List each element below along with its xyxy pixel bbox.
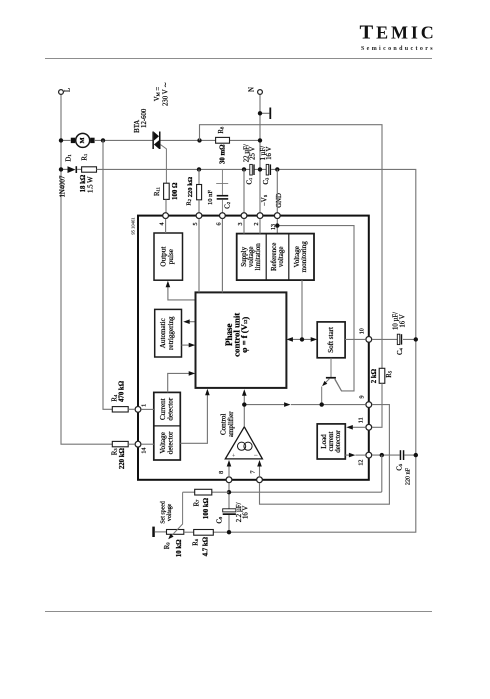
node pin 11 xyxy=(359,417,372,430)
svg-text:30 mΩ: 30 mΩ xyxy=(219,144,226,164)
wire pin 12 wrap to pin 8 node xyxy=(229,455,382,492)
svg-text:C4: C4 xyxy=(397,347,404,355)
svg-text:C5: C5 xyxy=(396,463,403,471)
node pin 6 xyxy=(217,213,226,226)
wire pin 4 to output pulse xyxy=(165,219,167,233)
svg-text:10 nF: 10 nF xyxy=(207,190,214,205)
wire pin 2 into block xyxy=(259,219,261,234)
node pin 14 xyxy=(135,441,148,453)
header rule xyxy=(45,58,432,60)
svg-text:220 kΩ: 220 kΩ xyxy=(119,447,126,469)
wire main line L-motor-triac-R8-N y=140.4 xyxy=(59,138,262,142)
label GND xyxy=(276,193,283,208)
svg-text:C9: C9 xyxy=(216,516,223,524)
svg-text:N: N xyxy=(247,87,255,92)
svg-text:detector: detector xyxy=(166,431,174,454)
svg-text:voltage: voltage xyxy=(277,246,285,267)
resistor R5 2k xyxy=(371,368,393,427)
svg-text:25 V: 25 V xyxy=(250,146,257,159)
svg-text:6: 6 xyxy=(217,222,223,225)
wire PCU to retriggering xyxy=(183,319,195,324)
wire amplifier output to PCU and pin 9 xyxy=(242,389,366,427)
triac BTA 12-600 xyxy=(152,132,166,184)
node N terminal xyxy=(247,87,262,94)
svg-text:12-600: 12-600 xyxy=(141,108,148,128)
svg-text:4: 4 xyxy=(160,222,166,225)
resistor R2 220k xyxy=(186,169,202,212)
wire motor sense to R4 xyxy=(103,140,112,409)
wire pin 11 to load current detector xyxy=(346,425,365,430)
svg-text:−VS: −VS xyxy=(261,194,268,206)
svg-text:amplifier: amplifier xyxy=(227,411,235,437)
svg-text:8: 8 xyxy=(219,471,225,474)
resistor R4 470k xyxy=(111,380,134,412)
svg-text:16 V: 16 V xyxy=(242,506,249,519)
svg-text:10 kΩ: 10 kΩ xyxy=(176,539,183,557)
block load current detector xyxy=(317,424,345,459)
node pin 12 xyxy=(359,452,372,465)
svg-text:Soft start: Soft start xyxy=(327,327,335,353)
svg-text:R9: R9 xyxy=(164,542,171,550)
wire PCU to soft start xyxy=(286,337,317,342)
capacitor C9 2.2uF xyxy=(216,502,249,532)
node L terminal xyxy=(59,88,72,95)
label -Vs xyxy=(261,194,268,206)
svg-text:13: 13 xyxy=(271,224,277,230)
svg-text:Semiconductors: Semiconductors xyxy=(361,46,435,52)
svg-text:230 V ∼: 230 V ∼ xyxy=(162,82,169,106)
op-amp control amplifier xyxy=(220,411,263,460)
svg-text:−: − xyxy=(254,450,258,459)
svg-text:monitoring: monitoring xyxy=(300,241,308,273)
node pin 5 xyxy=(193,213,202,226)
svg-text:100 Ω: 100 Ω xyxy=(172,182,179,200)
resistor R6 4.7k xyxy=(184,530,231,557)
svg-text:3: 3 xyxy=(238,222,244,225)
svg-text:R4: R4 xyxy=(111,394,118,402)
resistor R8 30mOhm xyxy=(216,126,230,164)
svg-text:R3: R3 xyxy=(111,448,118,456)
svg-text:R2 220 kΩ: R2 220 kΩ xyxy=(186,177,194,206)
resistor R1 18k xyxy=(80,154,96,193)
capacitor C4 10uF xyxy=(372,312,418,355)
capacitor C1 22uF xyxy=(243,144,256,184)
capacitor C5 220nF xyxy=(372,450,418,485)
label BTA 12-600 xyxy=(134,108,148,133)
svg-text:4.7 kΩ: 4.7 kΩ xyxy=(203,536,210,556)
wire pin 8 down xyxy=(227,483,231,509)
svg-text:Set speed: Set speed xyxy=(161,501,167,523)
wire retriggering to PCU xyxy=(182,343,196,348)
block supply voltage limitation / reference voltage / voltage monitoring xyxy=(237,234,314,281)
node pin 8 xyxy=(219,471,232,483)
svg-text:retriggering: retriggering xyxy=(167,316,175,350)
wire pin 6 into PCU xyxy=(221,219,223,293)
footer rule xyxy=(45,611,432,613)
TEMIC logo xyxy=(360,22,437,52)
wire voltage detector to PCU bottom xyxy=(180,389,209,444)
svg-text:2 kΩ: 2 kΩ xyxy=(371,368,378,383)
svg-text:95 10461: 95 10461 xyxy=(130,217,135,235)
capacitor C2 10nF xyxy=(207,169,232,212)
wire N rail down to pin 2 xyxy=(259,95,261,213)
svg-text:12: 12 xyxy=(359,460,365,466)
potentiometer R9 10k set speed xyxy=(152,492,184,557)
svg-text:10: 10 xyxy=(360,328,366,334)
block phase control unit xyxy=(196,292,287,388)
svg-text:R6: R6 xyxy=(193,538,200,546)
svg-text:+: + xyxy=(232,453,236,460)
svg-text:L: L xyxy=(64,88,72,92)
svg-text:1N4007: 1N4007 xyxy=(59,175,66,198)
svg-text:R5: R5 xyxy=(386,370,393,378)
node pin 9 xyxy=(360,395,372,407)
svg-text:470 kΩ: 470 kΩ xyxy=(119,380,126,402)
svg-text:7: 7 xyxy=(251,470,257,473)
svg-text:R8: R8 xyxy=(218,126,225,134)
block current detector / voltage detector xyxy=(154,392,181,460)
svg-text:16 V: 16 V xyxy=(266,146,273,159)
wire L rail down to R3 xyxy=(61,95,112,444)
wire output pulse from PCU xyxy=(166,281,196,300)
wire pin 7 to amplifier minus xyxy=(257,460,262,477)
svg-text:BTA: BTA xyxy=(134,120,141,133)
svg-text:14: 14 xyxy=(142,448,148,454)
wire current detector to PCU xyxy=(168,371,196,392)
wire -Vs rail y=169.4 xyxy=(97,167,416,532)
wire pin 1 to current detector xyxy=(141,408,154,410)
svg-text:C3: C3 xyxy=(263,177,270,185)
svg-text:11: 11 xyxy=(359,417,365,423)
block soft start xyxy=(317,322,345,358)
svg-text:voltage: voltage xyxy=(167,503,173,521)
wire R8 sense line to R5 xyxy=(200,125,383,369)
wire pin 14 to voltage detector xyxy=(141,443,154,445)
svg-text:1: 1 xyxy=(141,404,147,407)
svg-text:detector: detector xyxy=(166,397,174,420)
wire voltage monitoring down to soft start node xyxy=(301,280,303,339)
block automatic retriggering xyxy=(155,309,182,357)
node pin 4 xyxy=(160,213,169,226)
transistor Q1 xyxy=(322,358,342,405)
wire pin 3 into block xyxy=(243,219,245,234)
wire N tap T-bar xyxy=(258,108,271,120)
wire pin 5 into PCU xyxy=(198,219,200,293)
resistor R11 100R gate xyxy=(154,182,179,213)
wire load current detector to pin 12 xyxy=(345,453,365,458)
diode D1 xyxy=(59,154,82,197)
svg-text:16 V: 16 V xyxy=(399,314,406,327)
capacitor C3 1uF xyxy=(260,146,273,185)
label VM 230V xyxy=(154,82,170,106)
svg-text:9: 9 xyxy=(360,395,366,398)
wire soft start to pin 10 xyxy=(345,338,366,340)
svg-text:detector: detector xyxy=(334,430,342,453)
svg-text:100 kΩ: 100 kΩ xyxy=(203,497,210,519)
svg-text:C1: C1 xyxy=(247,178,254,185)
wire pin 8 to amplifier plus xyxy=(227,460,232,477)
node pin 13 xyxy=(271,213,280,230)
svg-text:R7: R7 xyxy=(193,499,200,507)
svg-text:220 nF: 220 nF xyxy=(405,467,411,485)
svg-text:TEMIC: TEMIC xyxy=(360,22,437,44)
node pin 7 xyxy=(251,470,263,482)
svg-text:5: 5 xyxy=(193,222,199,225)
svg-text:D1: D1 xyxy=(66,154,73,161)
svg-text:VM =: VM = xyxy=(154,87,162,102)
node pin 1 xyxy=(135,404,147,412)
wire pin 9 wrap to pin 7 xyxy=(260,405,390,505)
svg-text:18 kΩ: 18 kΩ xyxy=(80,174,87,192)
block output pulse xyxy=(154,233,183,280)
node pin 3 xyxy=(238,213,247,226)
svg-text:limitation: limitation xyxy=(254,243,262,271)
svg-text:1.5 W: 1.5 W xyxy=(87,176,94,193)
svg-text:pulse: pulse xyxy=(167,249,175,264)
op-amp U1 IC boundary box xyxy=(130,216,369,480)
svg-text:R1: R1 xyxy=(81,154,88,161)
node pin 10 xyxy=(360,328,372,342)
resistor R7 100k xyxy=(183,489,229,519)
motor M1 xyxy=(71,133,95,147)
resistor R3 220k xyxy=(111,441,134,469)
svg-text:M: M xyxy=(79,137,86,143)
svg-text:R11: R11 xyxy=(154,187,161,196)
svg-text:C2: C2 xyxy=(224,202,231,209)
svg-text:2: 2 xyxy=(254,222,260,225)
wire rail drop to pin 3 xyxy=(243,169,245,212)
node pin 2 xyxy=(254,213,263,226)
wire rail drop to pin 13 and GND corner wire to transistor collector xyxy=(275,169,354,391)
